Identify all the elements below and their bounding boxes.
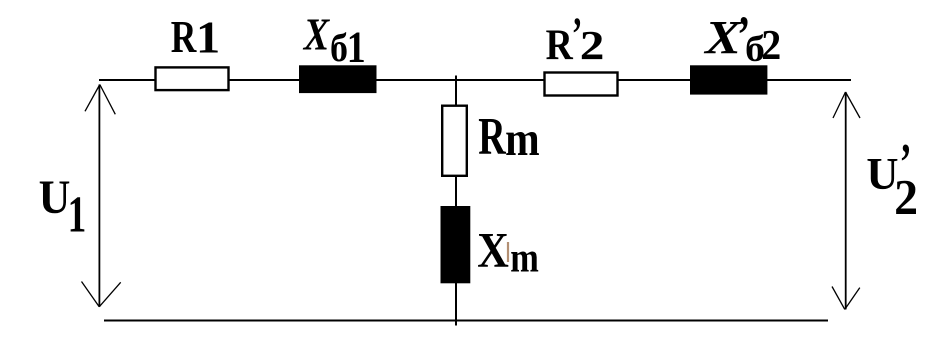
label X'б2 (703, 6, 781, 70)
label U1 (39, 171, 87, 243)
svg-text:R: R (478, 107, 506, 166)
label R1 (171, 12, 220, 63)
wire bottom rail (104, 320, 828, 322)
label R'2 (546, 7, 605, 69)
svg-text:m: m (505, 112, 540, 166)
svg-text:R: R (171, 12, 197, 62)
svg-text:1: 1 (347, 22, 366, 71)
svg-text:X: X (477, 223, 509, 278)
voltage arrow U1 (double-headed, left side) (82, 85, 121, 307)
svg-text:U: U (39, 171, 71, 224)
label U'2 (866, 133, 918, 224)
svg-text:R: R (546, 21, 574, 69)
resistor R1 (156, 67, 229, 90)
label Xб1 (302, 11, 366, 71)
inductor Xm (magnetizing reactance, filled) (441, 206, 471, 283)
svg-text:X: X (302, 11, 330, 61)
label Rm (478, 107, 539, 166)
label Xm (477, 223, 539, 281)
svg-text:б: б (330, 26, 348, 70)
svg-text:1: 1 (68, 186, 87, 243)
svg-text:m: m (510, 234, 539, 281)
wire top rail (input node to output node) (99, 79, 851, 81)
wire shunt branch vertical (junction through Rm, Xm to bottom rail) (455, 76, 457, 326)
voltage arrow U'2 (double-headed, right side) (832, 92, 860, 309)
svg-text:2: 2 (761, 21, 781, 68)
resistor Rm (magnetizing branch resistance) (442, 106, 467, 176)
resistor R'2 (referred secondary resistance) (545, 73, 618, 96)
svg-text:2: 2 (894, 168, 918, 224)
inductor X'б2 (referred secondary leakage reactance, filled) (690, 65, 767, 94)
svg-text:X: X (703, 11, 742, 63)
svg-text:2: 2 (580, 22, 605, 69)
svg-text:1: 1 (196, 13, 220, 63)
inductor Xб1 (primary leakage reactance, filled) (299, 65, 377, 93)
